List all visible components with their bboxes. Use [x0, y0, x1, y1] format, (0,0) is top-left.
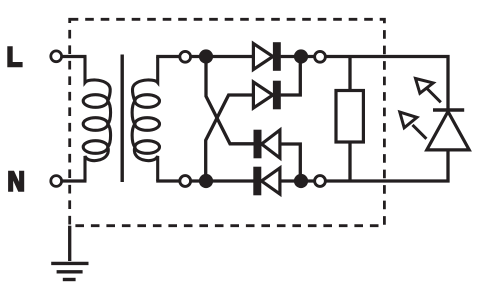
- junction node top-right: [294, 49, 308, 63]
- wire resistor R1 bottom tap: [348, 142, 351, 181]
- node circle secondary top: [180, 51, 191, 62]
- terminal L: [51, 51, 62, 62]
- wire secondary top rail to diode D1 anode: [156, 55, 253, 58]
- wire resistor R1 top tap: [348, 57, 351, 92]
- junction node bottom-right: [294, 174, 308, 188]
- transformer core: [120, 55, 123, 183]
- wire diode D4 anode to LED anode (bottom rail): [281, 150, 448, 181]
- LED arrow 2: [400, 112, 427, 139]
- diode D4: [253, 167, 280, 196]
- dashed enclosure: [70, 19, 385, 225]
- wire D1 cathode to LED cathode (top rail): [281, 57, 448, 109]
- node circle secondary bottom: [180, 176, 191, 187]
- ground: [51, 226, 88, 280]
- transformer T1 primary winding: [83, 57, 110, 182]
- wire L terminal to transformer primary: [56, 55, 87, 58]
- LED D5: [427, 110, 469, 150]
- diode D2: [253, 81, 280, 110]
- diode D1: [253, 42, 280, 71]
- transformer T1 secondary winding: [132, 57, 159, 182]
- node circle DC bottom: [315, 176, 326, 187]
- wire diode D3 anode to bottom DC node: [280, 144, 300, 181]
- wire diode D2 anode to bottom AC node (crossing): [206, 95, 254, 181]
- wire bottom rail secondary to diode D4 cathode: [156, 179, 253, 182]
- label L: [7, 46, 22, 67]
- wire N terminal to transformer primary: [56, 179, 87, 182]
- node circle DC top: [315, 51, 326, 62]
- wire diode D2 cathode to top DC node: [281, 57, 301, 96]
- resistor R1: [336, 91, 363, 143]
- junction node bottom-left: [199, 174, 213, 188]
- label N: [8, 171, 24, 192]
- wire top AC node to diode D3 cathode (crossing): [206, 57, 254, 144]
- junction node top-left: [199, 49, 213, 63]
- diode D3: [254, 130, 280, 159]
- terminal N: [51, 176, 62, 187]
- LED arrow 1: [416, 79, 441, 103]
